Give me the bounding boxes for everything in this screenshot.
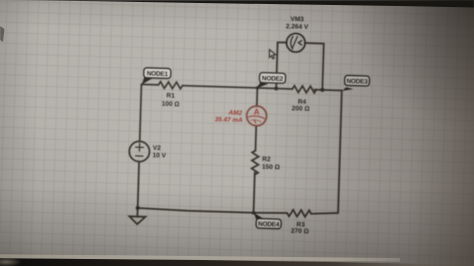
svg-text:10 V: 10 V xyxy=(152,152,166,159)
svg-text:100 Ω: 100 Ω xyxy=(162,101,180,109)
node NODE3 label tail xyxy=(342,87,353,91)
wire voltmeter branch left vertical xyxy=(276,42,277,88)
node NODE2 label box xyxy=(259,73,285,84)
wire bottom right to R3 xyxy=(311,212,338,214)
svg-text:200 Ω: 200 Ω xyxy=(292,105,310,113)
wire voltmeter right vertical down to NODE3 xyxy=(322,44,323,90)
wire R3 to NODE4 xyxy=(254,212,288,214)
wire top-left horizontal to R1 xyxy=(141,83,158,86)
resistor R3 xyxy=(287,210,311,217)
resistor R2 xyxy=(251,150,258,174)
wire R1 to R4 xyxy=(182,86,292,89)
resistor R4 xyxy=(292,86,316,93)
junction dot at NODE4 xyxy=(252,211,256,215)
node NODE2 label tail xyxy=(256,82,268,89)
node NODE4 label box xyxy=(256,218,281,228)
svg-text:2.264 V: 2.264 V xyxy=(286,23,309,31)
svg-text:NODE2: NODE2 xyxy=(262,75,284,83)
wire R4 to top-right corner xyxy=(314,89,341,92)
svg-text:270 Ω: 270 Ω xyxy=(291,228,309,236)
wire left vertical bottom xyxy=(138,162,139,208)
svg-text:NODE1: NODE1 xyxy=(147,70,169,78)
svg-text:150 Ω: 150 Ω xyxy=(262,164,280,172)
node NODE4 label tail xyxy=(254,213,265,221)
ammeter AM2 symbol xyxy=(246,106,266,126)
ground stub xyxy=(136,208,138,217)
svg-text:35.47 mA: 35.47 mA xyxy=(215,116,244,124)
junction dot at NODE3 xyxy=(320,88,324,92)
wire left vertical top xyxy=(140,84,142,141)
wire voltmeter right horizontal xyxy=(305,42,324,45)
node NODE3 label box xyxy=(345,75,370,86)
svg-text:A: A xyxy=(254,107,260,116)
svg-text:NODE4: NODE4 xyxy=(258,221,280,229)
svg-text:R2: R2 xyxy=(262,156,271,163)
voltage source V2 circle xyxy=(129,141,150,162)
ground symbol xyxy=(129,216,145,224)
junction dot at voltmeter branch / NODE2 xyxy=(274,86,278,90)
V2 minus sign xyxy=(136,155,143,157)
wire ammeter to R2 xyxy=(254,126,257,151)
node NODE1 label tail xyxy=(142,76,154,85)
V2 plus sign xyxy=(136,143,144,151)
wire right vertical xyxy=(338,90,342,213)
wire bottom NODE4 to ground junction xyxy=(138,208,254,213)
svg-text:R1: R1 xyxy=(166,92,175,99)
wire R2 to NODE4 xyxy=(254,173,255,213)
wire voltmeter left horizontal xyxy=(278,41,287,43)
svg-text:NODE3: NODE3 xyxy=(346,78,368,86)
mouse cursor xyxy=(269,50,276,59)
node NODE1 label box xyxy=(144,68,171,79)
resistor R1 xyxy=(158,82,182,89)
svg-text:VM3: VM3 xyxy=(290,16,304,23)
voltmeter VM3 symbol xyxy=(286,33,305,52)
junction dot at ground xyxy=(136,206,140,210)
svg-text:V2: V2 xyxy=(153,145,162,152)
junction dot at ammeter branch xyxy=(256,86,259,89)
wire ammeter branch top xyxy=(256,88,259,106)
